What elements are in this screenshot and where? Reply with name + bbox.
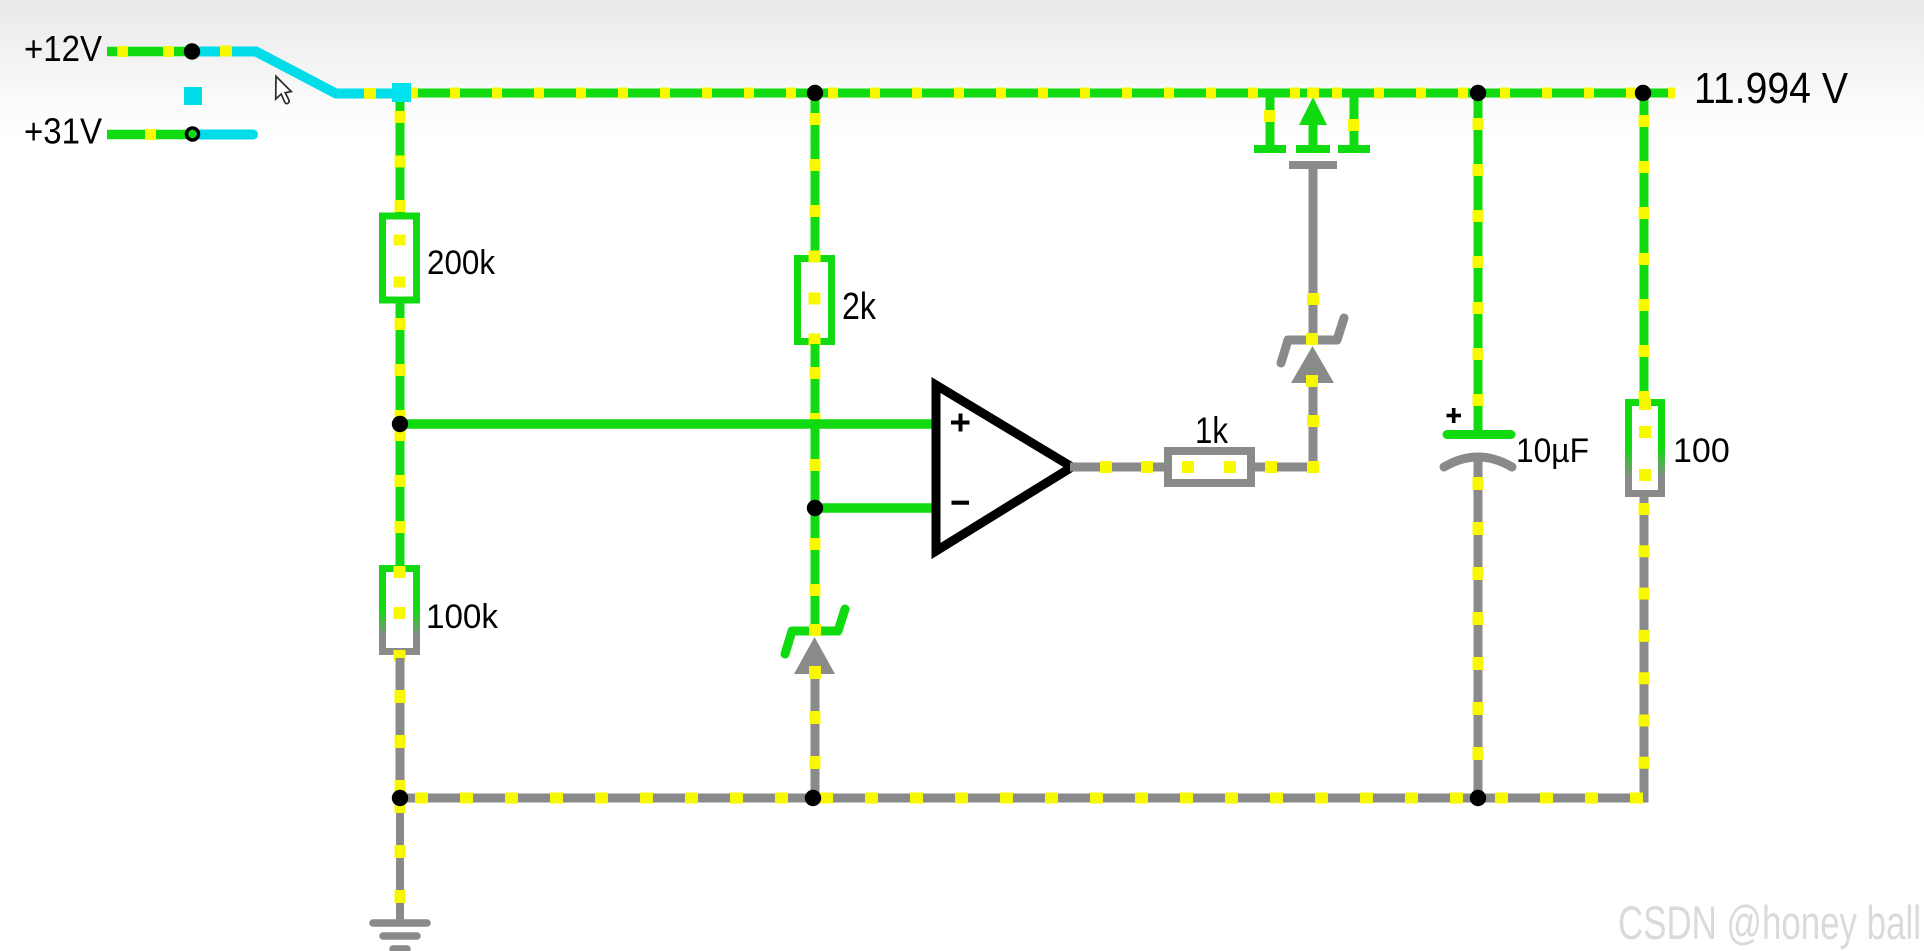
- svg-text:+12V: +12V: [24, 28, 103, 69]
- wire top rail 12V net: [402, 89, 1675, 98]
- node open terminal +31V (ring): [187, 128, 199, 140]
- node top rail right junction: [1635, 85, 1651, 101]
- wire R2 to bottom rail: [396, 652, 405, 798]
- node top rail capacitor junction: [1470, 85, 1486, 101]
- wire R1 to node A: [396, 300, 405, 424]
- wire +31V lead: [107, 130, 196, 140]
- zener diode D1 (cathode up): [785, 609, 845, 678]
- node A junction dot: [392, 416, 408, 432]
- wire bottom rail current dashes: [400, 793, 1644, 804]
- wire selected (cyan) from +12V node to top rail: [192, 52, 398, 94]
- node bottom rail capacitor junction: [1470, 790, 1486, 806]
- node junction +12V dot: [184, 43, 200, 59]
- wire R4 to corner below zener D2: [1255, 384, 1313, 467]
- wire node B to op-amp - input: [815, 503, 934, 513]
- svg-text:1k: 1k: [1195, 409, 1228, 451]
- svg-text:+31V: +31V: [24, 111, 103, 152]
- wire node A to op-amp + input: [400, 419, 934, 429]
- wire zener D1 to bottom rail: [811, 674, 820, 798]
- MOSFET Q1 (p-channel pass transistor): [1254, 88, 1370, 166]
- wire R3 to node B: [811, 344, 820, 508]
- mouse cursor: [276, 76, 292, 103]
- resistor R5 100: [1629, 403, 1662, 494]
- wire riser from rail to R3: [811, 93, 820, 257]
- svg-text:100k: 100k: [426, 598, 499, 636]
- resistor R2 100k: [383, 569, 417, 652]
- svg-text:10µF: 10µF: [1516, 432, 1589, 470]
- wire bottom rail to ground: [396, 798, 404, 920]
- op-amp U1: [936, 385, 1072, 551]
- wire zener D2 to MOSFET gate: [1309, 169, 1318, 333]
- node bottom rail x=813 junction: [805, 790, 821, 806]
- wire capacitor C1 to bottom rail: [1474, 458, 1483, 798]
- svg-text:11.994 V: 11.994 V: [1694, 64, 1849, 113]
- wire rail to R5: [1640, 93, 1649, 402]
- ground symbol: [373, 923, 427, 949]
- resistor R3 2k: [798, 259, 832, 342]
- svg-text:CSDN @honey ball: CSDN @honey ball: [1618, 896, 1921, 949]
- capacitor C1 10uF (polarized): [1444, 408, 1512, 467]
- svg-text:2k: 2k: [842, 286, 877, 328]
- wire selected (cyan) +31V stub: [200, 130, 253, 140]
- wire op-amp output to R4: [1070, 463, 1164, 472]
- wire +12V lead: [107, 47, 192, 57]
- node bottom rail left junction: [392, 790, 408, 806]
- resistor R1 200k: [383, 216, 417, 300]
- wire R5 to bottom rail corner: [400, 494, 1644, 798]
- zener diode D2 (cathode up, in gate leg): [1281, 318, 1344, 387]
- wire riser from rail to R1: [396, 97, 405, 218]
- svg-text:200k: 200k: [427, 244, 496, 282]
- svg-text:100: 100: [1673, 432, 1730, 470]
- wire rail to capacitor C1: [1474, 93, 1483, 431]
- selection handle square: [184, 87, 202, 105]
- node rail junction (selected, cyan square): [392, 83, 411, 102]
- resistor R4 1k: [1168, 451, 1251, 483]
- wire node B to zener D1: [811, 508, 820, 632]
- node B junction dot: [807, 500, 823, 516]
- node top rail at x=815: [807, 85, 823, 101]
- wire node A to R2: [396, 424, 405, 568]
